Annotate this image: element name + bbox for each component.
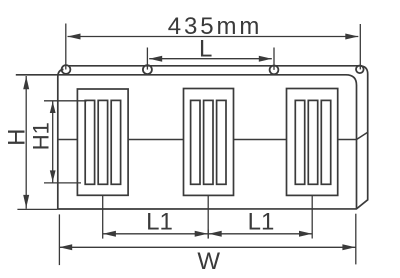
svg-text:W: W xyxy=(197,248,220,275)
svg-text:L1: L1 xyxy=(248,208,275,235)
svg-text:435mm: 435mm xyxy=(168,13,263,40)
svg-text:L1: L1 xyxy=(146,208,173,235)
svg-text:H: H xyxy=(4,129,31,146)
svg-text:H1: H1 xyxy=(28,122,53,150)
svg-text:L: L xyxy=(199,36,212,63)
